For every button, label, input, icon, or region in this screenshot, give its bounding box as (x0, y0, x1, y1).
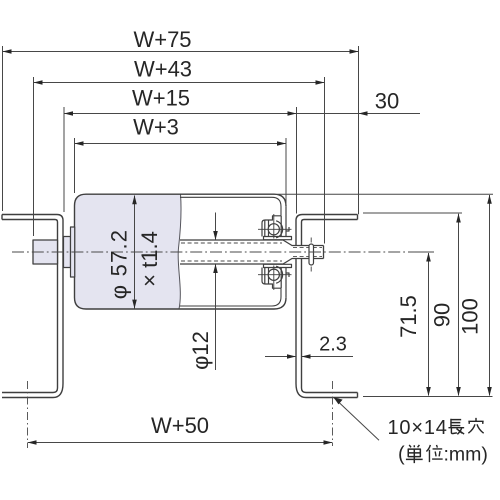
svg-text:W+15: W+15 (132, 86, 190, 111)
right frame rail (C-channel, flanges pointing right) (296, 215, 358, 398)
roller tube outline (75, 194, 287, 309)
svg-text:10×14: 10×14 (388, 417, 448, 439)
svg-text:30: 30 (375, 89, 399, 114)
shaft left stub (lavender, sticks through left frame web) (33, 240, 58, 264)
kanji ana (hole) (468, 418, 483, 433)
svg-text:2.3: 2.3 (319, 334, 347, 356)
dimension 90 (right) (363, 213, 462, 396)
svg-text:φ 57.2: φ 57.2 (106, 229, 131, 299)
leader arrow for slot label (334, 397, 380, 440)
shaft main section (inside roller, right of section break) (292, 246, 324, 259)
dimension W+50 (28, 442, 333, 444)
svg-text:100: 100 (457, 298, 482, 335)
kanji tan (single) (406, 445, 423, 463)
svg-text:φ12: φ12 (188, 331, 213, 370)
left frame rail (C-channel, flanges pointing left) (2, 215, 63, 398)
spacer bushing (64, 237, 71, 268)
dimension W+3 (75, 138, 287, 205)
dimension W+43 (34, 77, 325, 244)
svg-text:W+43: W+43 (134, 57, 192, 82)
dimension 2.3 (frame wall thickness) (265, 356, 353, 358)
horizontal centerline (12, 251, 415, 253)
bearing unit bottom (mirror) (262, 264, 292, 298)
bearing unit top (262, 206, 292, 240)
svg-text:W+3: W+3 (133, 115, 179, 140)
shaft hidden bore dashed lines (181, 243, 322, 261)
svg-text:× t1.4: × t1.4 (137, 231, 162, 287)
dimension 71.5 (right) (415, 252, 434, 396)
kanji kurai (position) (426, 445, 442, 462)
dimension W+15 and 30 (shared line) (64, 107, 420, 214)
slot centerline right (332, 381, 334, 446)
dimension phi12 (shaft) (215, 213, 217, 371)
roller tube inner wall lines (180, 197, 281, 306)
svg-text:W+75: W+75 (133, 27, 191, 52)
svg-text:90: 90 (429, 303, 454, 327)
roller tube body: lavender sectioned left portion (75, 194, 182, 309)
slot centerline left (27, 381, 29, 448)
svg-text:W+50: W+50 (151, 413, 209, 438)
svg-text:71.5: 71.5 (396, 295, 421, 338)
bottom extension line (mounting surface) (363, 396, 493, 398)
dimension 100 (right) (278, 194, 494, 395)
svg-text::mm): :mm) (444, 444, 488, 466)
svg-text:(: ( (398, 444, 405, 466)
end-cap hub ring (71, 227, 75, 277)
cotter pin through shaft stub (309, 238, 314, 272)
kanji naga (long) (448, 419, 464, 435)
dimension W+75 (3, 46, 359, 214)
dimension phi57.2 x t1.4 (vertical inside roller) (134, 196, 136, 309)
